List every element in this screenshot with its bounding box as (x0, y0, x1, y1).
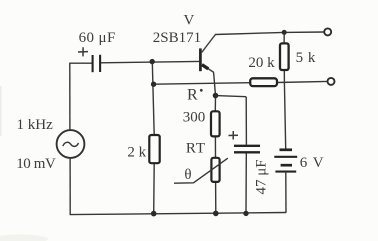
svg-text:47 μF: 47 μF (254, 159, 270, 194)
wire emitter node to R* top (214, 96, 216, 112)
battery GB plate 1 short (280, 148, 293, 151)
wire 47uF bottom lead (245, 153, 247, 213)
wire bias rail upper (base node down to 2k top) (152, 62, 154, 136)
resistor 5k body (280, 43, 289, 70)
wire RT bottom to bottom rail (215, 182, 217, 214)
wire 5k top lead (283, 32, 285, 43)
junction dot 2k top node (151, 82, 156, 87)
wire bottom rail (70, 213, 286, 215)
label R superscript dot (200, 89, 203, 92)
svg-text:2 k: 2 k (127, 145, 146, 161)
svg-text:5 k: 5 k (296, 50, 316, 66)
svg-text:10 mV: 10 mV (16, 156, 56, 172)
capacitor 47uF plate top (234, 145, 260, 147)
svg-text:V: V (184, 13, 195, 29)
junction dot bottom rail at 2k (151, 211, 157, 217)
junction dot bottom rail at 47uF (243, 211, 248, 216)
transistor V emitter lead (208, 68, 214, 72)
wire 5k bottom lead (283, 70, 285, 82)
wire battery top lead (284, 82, 285, 148)
svg-text:1 kHz: 1 kHz (17, 117, 54, 133)
wire left rail upper (corner down to source top) (69, 63, 71, 131)
wire emitter node horizontal to 47uF branch (216, 96, 247, 97)
wire base line (cap to transistor base) (100, 61, 199, 62)
wire emitter down column (214, 72, 216, 95)
battery GB plate 2 long (274, 156, 297, 158)
capacitor 60uF plate left (92, 55, 94, 72)
junction dot base node (150, 59, 155, 64)
wire R* bottom to RT top (214, 136, 216, 158)
wire mid horizontal line left (2k node to 20k left) (154, 83, 251, 85)
junction dot collector rail node (282, 30, 287, 35)
svg-text:20 k: 20 k (248, 55, 275, 71)
battery GB plate 4 long (275, 171, 296, 173)
wire top-left horizontal to coupling cap (70, 62, 93, 64)
transistor V collector lead (202, 35, 215, 53)
output terminal 1 (324, 28, 331, 35)
junction dot emitter node (213, 93, 219, 99)
transistor V base bar (199, 48, 202, 71)
capacitor 47uF plate bottom (234, 151, 260, 153)
resistor 2k body (149, 135, 159, 163)
svg-text:R: R (187, 86, 198, 103)
svg-text:300: 300 (183, 110, 206, 126)
wire bias rail lower (2k bottom to bottom rail) (153, 163, 156, 214)
output terminal 2 (328, 78, 335, 85)
AC source sine symbol (63, 142, 79, 146)
resistor R* body (211, 111, 220, 136)
svg-text:6 V: 6 V (300, 155, 325, 171)
wire top rail (collector corner to output terminal 1) (215, 32, 324, 35)
scan smudge left edge (0, 86, 2, 136)
thermistor RT diagonal (174, 158, 228, 183)
resistor 20k body (250, 78, 277, 86)
wire left rail lower (source bottom to bottom rail) (69, 158, 71, 215)
svg-text:60 μF: 60 μF (79, 30, 116, 46)
wire battery bottom lead (285, 173, 287, 213)
wire 47uF top lead (245, 97, 247, 145)
junction dot bottom rail at RT (213, 211, 219, 217)
svg-text:RT: RT (186, 140, 206, 156)
svg-text:2SB171: 2SB171 (153, 30, 201, 46)
svg-text:θ: θ (184, 167, 191, 183)
thermistor RT body (211, 158, 219, 182)
AC source G1 circle (57, 130, 85, 158)
scan smudge bottom left (0, 235, 48, 241)
transistor V emitter arrow (PNP) (202, 65, 208, 69)
polarity plus of 60uF (78, 47, 88, 56)
capacitor 60uF plate right (99, 55, 101, 72)
polarity plus of 47uF (229, 131, 239, 140)
wire mid horizontal line right (20k right to output terminal 2) (277, 81, 327, 82)
battery GB plate 3 short (281, 164, 292, 167)
